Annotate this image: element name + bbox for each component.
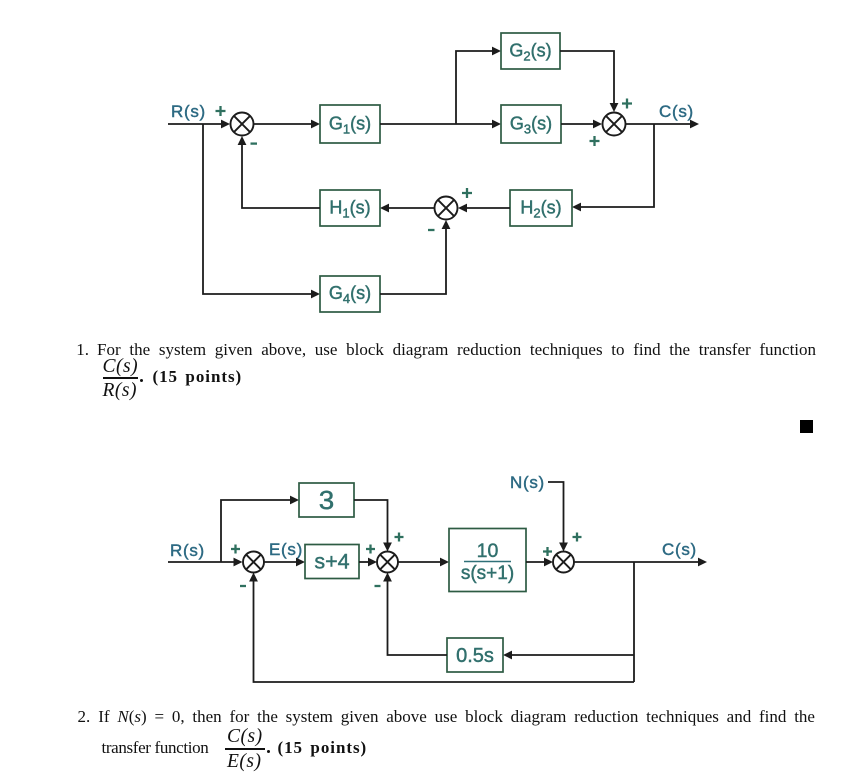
wire S3 to block H1 — [380, 204, 434, 213]
block G3 — [501, 105, 561, 143]
summing junction C — [553, 552, 574, 573]
wire G1 to block G3 (with branch node) — [380, 120, 501, 129]
wire N(s) to summing junction C top — [548, 482, 568, 552]
wire S1 to block G1 — [254, 120, 320, 129]
svg-text:10: 10 — [477, 540, 499, 562]
block 0.5s — [447, 638, 503, 672]
sign + left of junction C — [543, 547, 552, 556]
summing junction S3 — [435, 197, 458, 220]
svg-text:H2(s): H2(s) — [520, 198, 561, 221]
node N(s) label — [510, 473, 545, 492]
sign + bottom left of S2 — [590, 136, 600, 146]
summing junction S1 — [231, 113, 254, 136]
sign + left of junction A — [231, 545, 240, 554]
node R(s) input label (diagram 1) — [171, 102, 206, 121]
node C(s) output label (diagram 1) — [659, 102, 694, 121]
svg-text:N(s): N(s) — [510, 473, 545, 492]
wire outer feedback loop to junction A bottom — [249, 573, 634, 683]
block 10/s(s+1) — [449, 529, 526, 592]
summing junction B — [377, 552, 398, 573]
wire R(s) input to summing junction S1 — [168, 120, 230, 129]
wire branch up to block G2 — [456, 47, 501, 124]
wire H2 to summing junction S3 — [458, 204, 510, 213]
end of problem marker — [800, 420, 813, 433]
svg-text:G1(s): G1(s) — [329, 114, 371, 137]
problem 2 points — [267, 750, 270, 753]
svg-text:3: 3 — [319, 487, 335, 515]
wire G3 to summing junction S2 — [561, 120, 602, 129]
wire 0.5s to summing junction B bottom — [383, 573, 447, 656]
wire G4 to S3 bottom — [380, 220, 450, 294]
wire trunk to block 0.5s — [503, 651, 634, 660]
svg-text:C(s): C(s) — [662, 540, 697, 559]
sign - below junction A — [240, 585, 246, 587]
wire output branch down to block H2 — [572, 124, 654, 211]
sign + left of junction B — [366, 545, 375, 554]
wire block 3 to summing junction B top — [354, 500, 392, 552]
svg-text:0.5s: 0.5s — [456, 645, 494, 667]
problem 2 statement line 1 — [78, 707, 815, 727]
summing junction S2 — [603, 113, 626, 136]
block H1 — [320, 190, 380, 226]
wire G2 to summing junction S2 top — [560, 51, 618, 112]
block gain 3 — [299, 483, 354, 517]
block s+4 — [305, 545, 359, 579]
wire junction C to C(s) output — [574, 558, 707, 567]
problem 2 fraction C(s)/E(s) — [227, 726, 263, 748]
wire S2 to C(s) output — [626, 120, 699, 129]
problem 2 statement line 2 — [102, 738, 209, 758]
sign + right of S3 — [462, 188, 472, 198]
block G2 — [501, 33, 560, 69]
block H2 — [510, 190, 572, 226]
sign + at summing junction S1 — [216, 106, 226, 116]
svg-text:G2(s): G2(s) — [509, 41, 551, 64]
wire branch up to block 3 — [221, 496, 299, 562]
sign + above junction B — [395, 533, 404, 542]
svg-text:G4(s): G4(s) — [329, 283, 371, 306]
block G4 — [320, 276, 380, 312]
summing junction A — [243, 552, 264, 573]
svg-text:E(s): E(s) — [269, 540, 303, 559]
node C(s) output label (diagram 2) — [662, 540, 697, 559]
wire output branch down (feedback trunk) — [633, 562, 635, 682]
svg-text:R(s): R(s) — [171, 102, 206, 121]
wire junction A to block s+4 — [264, 558, 305, 567]
wire block 10/s(s+1) to summing junction C — [526, 558, 553, 567]
sign + above right of junction C — [573, 533, 582, 542]
svg-text:G3(s): G3(s) — [510, 114, 552, 137]
svg-text:H1(s): H1(s) — [329, 198, 370, 221]
sign + top right of S2 — [622, 99, 632, 109]
svg-text:C(s): C(s) — [659, 102, 694, 121]
wire junction B to block 10/s(s+1) — [398, 558, 449, 567]
wire H1 to S1 bottom — [238, 136, 320, 208]
sign - below left of S3 — [428, 229, 435, 231]
sign - at summing junction S1 — [251, 142, 258, 144]
wire R(s) branch down to block G4 — [203, 124, 320, 298]
svg-text:R(s): R(s) — [170, 541, 205, 560]
problem 1 statement line 1 — [76, 340, 816, 360]
wire s+4 to summing junction B — [359, 558, 377, 567]
problem 1 fraction C(s)/R(s) — [103, 356, 139, 378]
node R(s) input label (diagram 2) — [170, 541, 205, 560]
problem 1 points — [140, 379, 143, 382]
block G1 — [320, 105, 380, 143]
wire R(s) input to summing junction A — [168, 558, 243, 567]
sign - below junction B — [375, 585, 381, 587]
svg-text:s(s+1): s(s+1) — [461, 563, 514, 584]
node E(s) label — [269, 540, 303, 559]
svg-text:s+4: s+4 — [314, 550, 349, 574]
